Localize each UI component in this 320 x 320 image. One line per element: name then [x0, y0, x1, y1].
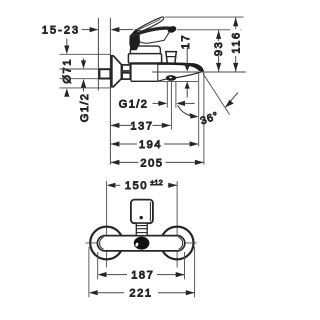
svg-text:116: 116	[230, 31, 242, 53]
escutcheon cone flange (side view)	[110, 55, 121, 88]
svg-text:15-23: 15-23	[42, 25, 80, 37]
dimension 17	[180, 34, 192, 98]
spout bottom reference line	[152, 71, 246, 73]
svg-text:±12: ±12	[150, 180, 163, 187]
spout underside curve	[158, 72, 202, 82]
lever knob	[167, 25, 178, 34]
lever handle lower skirt	[135, 32, 170, 43]
handle base rings	[136, 223, 147, 235]
handle (front view)	[131, 200, 153, 224]
dimension 15-23	[42, 25, 134, 37]
left escutcheon circle	[90, 227, 123, 260]
right supply centre line	[176, 181, 178, 268]
dimension 205	[111, 157, 204, 169]
lever handle loop (thin outline)	[136, 17, 164, 31]
cartridge housing box	[128, 54, 161, 64]
svg-text:17: 17	[180, 34, 192, 49]
svg-text:187: 187	[131, 270, 154, 282]
36 degree leader arrow	[225, 93, 238, 108]
wall line	[97, 18, 99, 91]
mixer body capsule	[97, 236, 184, 251]
knob top reference line	[177, 29, 242, 31]
dimension G1/2 (outlet row)	[119, 98, 195, 110]
aerator	[166, 75, 177, 81]
dimension 187	[98, 252, 185, 282]
svg-text:221: 221	[129, 288, 152, 300]
svg-text:93: 93	[213, 41, 225, 56]
36 degree angled line	[203, 73, 230, 114]
svg-text:150: 150	[125, 180, 148, 192]
dimension Ø71	[60, 39, 111, 97]
handle top reference line	[165, 16, 244, 18]
right escutcheon circle	[161, 227, 194, 260]
G1/2 leader to spout outlet line	[178, 105, 199, 118]
spout top band (thick curve)	[158, 62, 204, 72]
union nut blocks	[122, 65, 130, 71]
dimension 116	[230, 18, 242, 72]
lever handle loop crease	[139, 19, 161, 29]
svg-text:G1/2: G1/2	[79, 93, 91, 122]
dimension G1/2 (stub thread, rotated label)	[60, 59, 100, 123]
svg-text:205: 205	[140, 157, 163, 169]
diverter knob on spout	[166, 52, 177, 64]
aerator extension lines	[167, 82, 176, 130]
dimension 194	[111, 139, 199, 151]
left supply centre line	[106, 181, 108, 268]
dimension 221	[89, 247, 195, 300]
flange face extension line	[109, 18, 111, 165]
dimension 93	[213, 30, 225, 71]
dimension 137	[111, 120, 171, 132]
valve body (side view)	[131, 63, 159, 81]
spout tip extension line	[203, 73, 205, 165]
svg-text:36°: 36°	[199, 110, 221, 128]
dimension 150 +-12	[107, 180, 178, 192]
svg-text:Ø71: Ø71	[62, 58, 74, 84]
circle centre cross lines	[85, 242, 196, 244]
svg-text:194: 194	[139, 139, 162, 151]
cartridge dome cap	[130, 46, 160, 54]
svg-text:G1/2: G1/2	[119, 98, 148, 110]
lever handle thick underside	[131, 28, 171, 37]
body bottom extension line	[158, 80, 198, 82]
lever handle pivot	[129, 29, 140, 50]
G1/2 threaded stub	[99, 69, 110, 78]
svg-text:137: 137	[130, 120, 153, 132]
spout outlet extension line	[198, 73, 200, 147]
capsule inner cap arcs	[100, 237, 183, 249]
diverter knob (front view)	[134, 237, 150, 250]
